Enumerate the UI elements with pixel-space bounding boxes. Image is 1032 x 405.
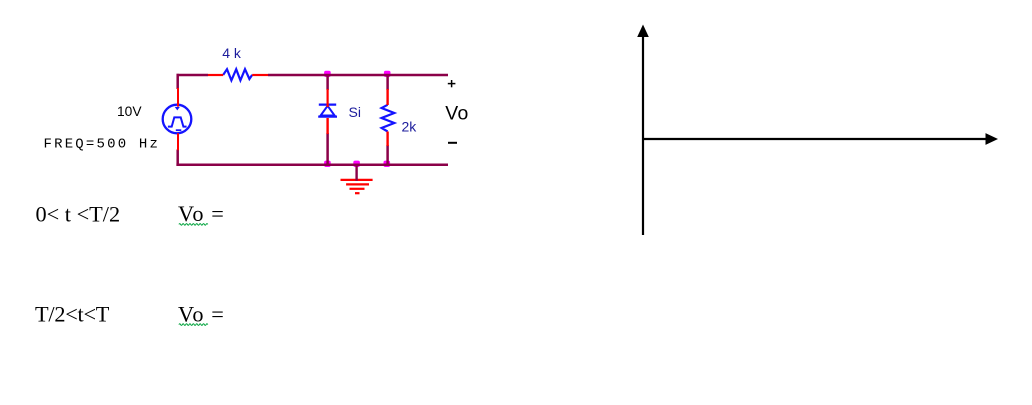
svg-text:10V: 10V [117,104,142,119]
pin red segment left of resistor R1 [208,74,223,76]
node - terminal [448,142,457,144]
voltage source V1 pulse waveform [168,117,187,126]
svg-text:T/2<t<T: T/2<t<T [35,302,110,327]
label Si [349,104,361,120]
diode D1 anode bar [318,115,337,117]
diode D1 triangle [321,106,335,116]
svg-text:4 k: 4 k [222,45,242,61]
wire top-right dark segment [268,74,448,77]
wire diode branch upper dark stub [326,75,329,90]
junction dot diode top [324,71,331,77]
svg-text:Si: Si [349,104,361,120]
junction dot ground [353,161,360,167]
svg-text:FREQ=500 Hz: FREQ=500 Hz [44,136,161,152]
pin red segment right of resistor R1 [252,74,268,76]
wire left vertical upper dark segment [176,74,179,89]
ground symbol line 1 [341,179,373,181]
ground symbol line 4 [355,192,360,194]
voltage source V1 circle [163,105,192,134]
wire ground stub [355,165,357,181]
resistor R2 2k zigzag [382,105,395,132]
junction dot 2k top [384,71,391,77]
junction dot 2k bottom [384,161,391,167]
label Vo [445,103,468,125]
pin red segment above resistor R2 [386,89,388,105]
label 4 k [222,45,242,61]
pin red segment above source V1 [177,88,179,107]
squiggle under Vo line 1 [179,224,208,226]
horizontal axis [643,133,998,145]
wire 2k branch upper dark stub [386,75,389,90]
svg-text:0< t <T/2: 0< t <T/2 [36,202,121,227]
wire diode branch lower dark stub [326,133,329,165]
svg-text:Vo =: Vo = [178,301,225,326]
ground symbol line 2 [346,183,369,185]
text line 1 Vo = [178,201,225,226]
wire left vertical lower dark segment [176,150,179,166]
text line 1 condition [36,202,121,227]
svg-text:Vo: Vo [445,103,468,125]
svg-text:2k: 2k [402,119,418,135]
pin red segment above diode D1 [327,89,329,107]
pin red segment below source V1 [177,133,179,150]
ground symbol line 3 [350,188,365,190]
pin red segment below resistor R2 [386,132,388,147]
resistor R1 4k zigzag [223,69,252,80]
label 2k [402,119,418,135]
squiggle under Vo line 2 [179,324,208,326]
wire 2k branch lower dark stub [386,145,389,165]
vertical axis [637,25,649,236]
text line 2 Vo = [178,301,225,326]
text line 2 condition [35,302,110,327]
node + terminal [448,80,456,87]
svg-text:Vo =: Vo = [178,201,225,226]
label 10V [117,104,142,119]
pin red segment below diode D1 [326,118,328,134]
voltage source V1 arrow marker [175,107,180,111]
wire top-left dark segment [177,74,209,77]
voltage source V1 minus mark [176,129,182,131]
wire bottom dark segment [176,163,448,166]
junction dot diode bottom [324,161,331,167]
label FREQ=500 Hz [44,136,161,152]
diode D1 cathode bar [319,103,336,105]
